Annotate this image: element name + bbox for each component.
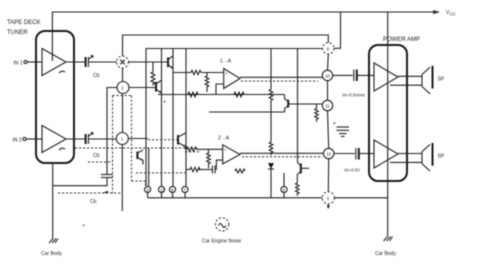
wire rail2 from pin8 to pin9 [123, 35, 329, 56]
pin 13 [158, 186, 164, 192]
ground wire tape deck [52, 163, 54, 239]
svg-text:+: + [225, 71, 228, 76]
op-amp tape amp 1 [42, 49, 66, 76]
svg-text:Car Body: Car Body [375, 251, 396, 257]
svg-text:10: 10 [325, 74, 330, 79]
shield dashed top link [113, 95, 132, 97]
wire pa2 return [390, 161, 422, 163]
shield dashed vertical left [112, 96, 114, 194]
ground pin 4 [322, 192, 334, 204]
capacitor Cb ch1 [85, 57, 87, 67]
pin 1 input ch2 [116, 133, 128, 145]
wire cap to pin8 [88, 61, 116, 63]
svg-text:11: 11 [325, 104, 330, 109]
svg-text:SP: SP [438, 77, 445, 83]
svg-text:13: 13 [160, 187, 165, 192]
svg-text:Cb: Cb [93, 73, 100, 79]
wire cap to car body [53, 178, 107, 186]
ground car body right [384, 237, 393, 242]
pin 12 [324, 148, 334, 158]
wire feedback y94.5 [158, 94, 285, 96]
svg-text:1→A: 1→A [220, 59, 232, 65]
shield dashed y148 [75, 147, 199, 149]
noise dashed along op1 out [241, 80, 318, 82]
op-amp power amp 1 [374, 63, 398, 91]
resistor R1 [151, 62, 155, 86]
speaker SP1 [421, 75, 423, 87]
wire op2 output [240, 152, 323, 154]
svg-text:Car Body: Car Body [41, 251, 62, 257]
wire Vcc drop [387, 12, 389, 198]
svg-text:Vo=0.5Vrms: Vo=0.5Vrms [342, 93, 365, 98]
ground car body left [49, 239, 58, 244]
stray dot [83, 225, 84, 227]
svg-text:POWER AMP: POWER AMP [383, 37, 420, 43]
svg-text:TAPE DECK: TAPE DECK [7, 20, 41, 26]
svg-text:Vo=0.5V: Vo=0.5V [344, 168, 360, 173]
transistor Q3 [287, 100, 289, 108]
svg-text:TUNER: TUNER [7, 30, 28, 36]
svg-text:+: + [224, 148, 227, 153]
svg-text:CC: CC [450, 12, 456, 17]
noise source [216, 218, 229, 231]
resistor R6 [315, 104, 319, 122]
svg-text:+: + [333, 121, 336, 127]
wire rail2 drop x297 [297, 49, 299, 163]
wire Q3 emitter line [209, 111, 285, 113]
svg-text:−: − [224, 159, 227, 164]
pin 9 [323, 43, 334, 54]
svg-text:2→A: 2→A [218, 136, 230, 142]
IC top edge [146, 49, 323, 187]
wire pin1 down dangling [121, 145, 123, 212]
wire Q3 base to pin5 [288, 103, 322, 105]
wire pin8 to pin2 [122, 68, 124, 82]
noise path dashed y193 with arrow [58, 192, 122, 194]
tick under amp2 [59, 148, 65, 150]
wire pa1 return [390, 84, 422, 86]
op-amp power amp 2 [374, 140, 398, 168]
wire pin12 to cap2 [334, 153, 355, 155]
svg-text:IN 2: IN 2 [13, 138, 22, 144]
wire pin11 down [328, 111, 329, 149]
svg-text:Cb: Cb [93, 153, 100, 159]
wire pin9-pin10 [327, 54, 330, 70]
wire top Vcc rail [52, 12, 437, 61]
transistor Q6 [136, 152, 138, 160]
resistor R7a [269, 90, 273, 101]
wire pa1 out [398, 75, 422, 77]
resistor R11 [296, 183, 300, 196]
IC internal vertical C [185, 49, 187, 187]
tape deck box [36, 31, 74, 163]
svg-text:12: 12 [326, 152, 331, 157]
wire op1 output [240, 76, 322, 78]
coupling capacitor C4 [355, 148, 357, 160]
wire pin5b up [283, 173, 285, 187]
wire pin1 right [128, 138, 148, 140]
Vcc arrowhead [433, 11, 438, 14]
wire pin12 down to gnd pin [327, 159, 329, 192]
svg-text:SP: SP [438, 154, 445, 160]
wire op2 minus input [216, 160, 222, 169]
wire pin10 to cap [333, 74, 353, 76]
resistor R8 [187, 147, 197, 151]
wire IN2 to amp [26, 138, 42, 140]
resistor R9 [207, 149, 211, 168]
svg-text:IN 1: IN 1 [14, 61, 23, 67]
wire op1 minus input [216, 84, 224, 95]
pin 3 [145, 186, 151, 192]
pin 10 [322, 70, 332, 80]
junction dot [164, 101, 166, 103]
svg-text:−: − [225, 83, 228, 88]
resistor R3 [188, 92, 198, 96]
speaker SP2 [421, 152, 423, 164]
IC internal vertical B [172, 49, 174, 187]
wire IN1 to amp [27, 61, 42, 63]
wire cap to pin1 [88, 138, 116, 140]
svg-text:Cb: Cb [90, 199, 97, 205]
resistor R7b [269, 142, 273, 155]
coupling capacitor C3 [353, 70, 355, 82]
pin 7 [182, 186, 188, 192]
wire pin8 to Q1 base [129, 61, 169, 63]
resistor R5 [205, 73, 209, 93]
wire op1 plus input [173, 72, 191, 74]
svg-text:Car Engine Noise: Car Engine Noise [202, 239, 241, 245]
diode D1 [268, 163, 274, 169]
IC internal vertical A [161, 49, 163, 187]
resistor R10 [190, 167, 200, 171]
shield dashed to pin3 [132, 181, 146, 186]
noise dashed along op2 out [242, 156, 323, 158]
capacitor Cb ch2 [85, 134, 87, 144]
wire pin2 left to bypass cap [107, 88, 117, 175]
capacitor C2 feedback [214, 166, 216, 174]
transistor Q4 [300, 164, 302, 174]
wire pin3 inner [148, 148, 150, 186]
pin 6 [169, 186, 175, 192]
shield dashed vertical right [131, 96, 133, 182]
pin 2 [117, 82, 129, 94]
wire Q5 base dashed [148, 139, 178, 141]
wire amp1 out [66, 61, 85, 63]
transistor Q5 [177, 135, 179, 145]
resistor R2 [191, 70, 201, 74]
op-amp tape amp 2 [42, 126, 66, 153]
wire pin2 to pin1 [122, 94, 124, 133]
dashed feedback path op2 [136, 172, 186, 174]
dashed under resistor R8 [185, 151, 200, 153]
wire pin2 to Q2 base [129, 87, 156, 89]
power amp box [369, 45, 407, 181]
wire x271 vertical [270, 49, 272, 90]
pin 11 [322, 100, 332, 110]
wire Q5 emitter to R8 [185, 147, 187, 150]
capacitor bypass to car body [101, 174, 113, 176]
small zigzag mark [235, 169, 245, 173]
ground wire right [387, 198, 389, 237]
wire pin9 to Vcc rail [334, 12, 341, 48]
resistor R4 [234, 92, 244, 96]
pin 5b [281, 186, 287, 192]
transistor Q1 [167, 58, 169, 68]
wire amp2 out [66, 138, 85, 140]
transistor Q2 [155, 82, 157, 92]
tick under amp1 [59, 71, 65, 73]
pin 8 input ch1 [117, 56, 129, 68]
wire pa2 out [398, 153, 422, 155]
bottom ground rail [148, 197, 323, 199]
shield dashed y162 [88, 161, 113, 163]
